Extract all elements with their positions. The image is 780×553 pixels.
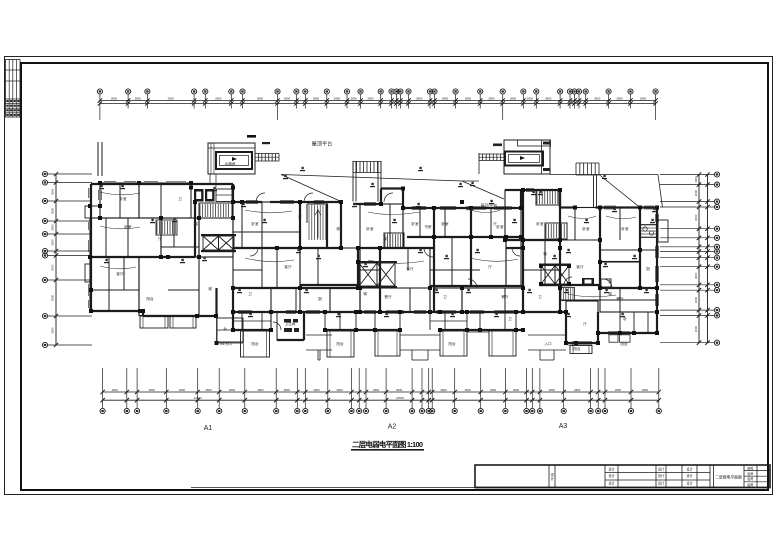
svg-text:卫: 卫 xyxy=(508,317,512,321)
svg-text:3000: 3000 xyxy=(694,190,698,197)
svg-text:2800: 2800 xyxy=(642,388,649,392)
svg-text:24500: 24500 xyxy=(396,396,404,400)
svg-text:梯: 梯 xyxy=(194,221,198,226)
svg-text:3000: 3000 xyxy=(51,294,55,301)
svg-text:厨: 厨 xyxy=(318,296,322,301)
svg-text:A2: A2 xyxy=(388,424,397,431)
svg-text:卫: 卫 xyxy=(443,295,447,299)
svg-text:2800: 2800 xyxy=(257,97,264,101)
svg-text:3000: 3000 xyxy=(694,176,698,183)
svg-text:阳台: 阳台 xyxy=(146,296,154,301)
svg-text:2800: 2800 xyxy=(594,97,601,101)
svg-text:阳台: 阳台 xyxy=(620,341,628,346)
svg-text:二层电弱电平面图 1:100: 二层电弱电平面图 1:100 xyxy=(352,440,423,449)
svg-text:阳台: 阳台 xyxy=(573,346,581,351)
svg-text:卧室: 卧室 xyxy=(582,226,590,231)
svg-text:2800: 2800 xyxy=(442,97,449,101)
svg-text:卧室: 卧室 xyxy=(441,221,449,226)
svg-text:设计: 设计 xyxy=(686,466,693,471)
svg-text:2800: 2800 xyxy=(313,97,320,101)
svg-text:2800: 2800 xyxy=(284,97,291,101)
svg-text:设计: 设计 xyxy=(686,473,693,478)
svg-text:24500: 24500 xyxy=(194,396,202,400)
svg-text:图号: 图号 xyxy=(747,476,753,481)
svg-text:2800: 2800 xyxy=(337,388,344,392)
svg-text:厅: 厅 xyxy=(493,221,497,226)
svg-text:设计: 设计 xyxy=(658,466,665,471)
svg-text:客厅: 客厅 xyxy=(284,264,292,269)
svg-text:厅: 厅 xyxy=(488,264,492,269)
svg-text:梯: 梯 xyxy=(608,291,612,296)
svg-text:A1: A1 xyxy=(204,425,213,432)
svg-text:3000: 3000 xyxy=(51,264,55,271)
svg-text:厅: 厅 xyxy=(298,214,302,219)
svg-text:A1入口: A1入口 xyxy=(220,341,232,346)
svg-text:2800: 2800 xyxy=(229,388,236,392)
svg-text:餐厅: 餐厅 xyxy=(616,296,624,301)
svg-text:3000: 3000 xyxy=(51,207,55,214)
svg-text:卫: 卫 xyxy=(178,197,182,201)
svg-text:设计: 设计 xyxy=(608,473,615,478)
svg-text:2800: 2800 xyxy=(149,388,156,392)
svg-text:2800: 2800 xyxy=(373,388,380,392)
svg-text:3000: 3000 xyxy=(51,327,55,334)
svg-text:2800: 2800 xyxy=(179,388,186,392)
svg-text:2800: 2800 xyxy=(465,97,472,101)
svg-text:3000: 3000 xyxy=(51,239,55,246)
svg-text:梯: 梯 xyxy=(363,291,367,296)
svg-text:卧室: 卧室 xyxy=(466,206,474,211)
svg-text:弱: 弱 xyxy=(608,280,612,284)
svg-text:3000: 3000 xyxy=(51,188,55,195)
svg-text:设计: 设计 xyxy=(686,480,693,485)
svg-text:阳台: 阳台 xyxy=(566,341,574,346)
svg-text:水箱间: 水箱间 xyxy=(225,161,236,166)
svg-text:台: 台 xyxy=(223,326,227,331)
svg-text:餐厅: 餐厅 xyxy=(501,294,509,299)
svg-text:A3: A3 xyxy=(559,423,568,430)
svg-text:梯: 梯 xyxy=(543,251,547,256)
svg-text:2800: 2800 xyxy=(111,97,118,101)
svg-text:3000: 3000 xyxy=(694,272,698,279)
svg-text:3000: 3000 xyxy=(51,224,55,231)
svg-text:2800: 2800 xyxy=(416,97,423,101)
svg-text:屋顶平台: 屋顶平台 xyxy=(312,140,333,148)
svg-text:2800: 2800 xyxy=(396,388,403,392)
svg-text:阳台: 阳台 xyxy=(336,341,344,346)
svg-text:二层弱电平面图: 二层弱电平面图 xyxy=(715,474,742,479)
svg-text:梯: 梯 xyxy=(208,286,212,291)
svg-text:卧室: 卧室 xyxy=(124,224,132,229)
svg-text:卧室: 卧室 xyxy=(536,221,544,226)
svg-text:餐厅: 餐厅 xyxy=(384,294,392,299)
svg-text:3000: 3000 xyxy=(694,297,698,304)
svg-text:设计: 设计 xyxy=(658,480,665,485)
svg-text:2800: 2800 xyxy=(549,388,556,392)
svg-text:卫: 卫 xyxy=(248,292,252,296)
svg-text:2800: 2800 xyxy=(205,388,212,392)
svg-text:图号: 图号 xyxy=(747,465,753,470)
svg-text:厅: 厅 xyxy=(583,321,587,326)
svg-text:图号: 图号 xyxy=(747,471,753,476)
svg-text:图号: 图号 xyxy=(747,482,753,487)
svg-text:卧室: 卧室 xyxy=(411,221,419,226)
svg-text:设计: 设计 xyxy=(608,466,615,471)
svg-text:阳台: 阳台 xyxy=(251,341,259,346)
svg-text:客厅: 客厅 xyxy=(116,271,124,276)
svg-text:入口: 入口 xyxy=(544,341,552,346)
svg-text:2800: 2800 xyxy=(168,97,175,101)
svg-text:3000: 3000 xyxy=(694,326,698,333)
svg-text:2800: 2800 xyxy=(313,388,320,392)
svg-text:2800: 2800 xyxy=(215,97,222,101)
svg-text:2800: 2800 xyxy=(490,388,497,392)
svg-text:厅: 厅 xyxy=(158,236,162,241)
svg-text:厨: 厨 xyxy=(646,266,650,271)
svg-text:卧室: 卧室 xyxy=(621,226,629,231)
svg-text:书房: 书房 xyxy=(424,224,432,229)
svg-text:2800: 2800 xyxy=(440,388,447,392)
svg-text:客厅: 客厅 xyxy=(406,266,414,271)
svg-text:2800: 2800 xyxy=(527,97,534,101)
svg-text:卫生间: 卫生间 xyxy=(285,321,296,326)
svg-text:2800: 2800 xyxy=(257,388,264,392)
svg-text:2800: 2800 xyxy=(640,97,647,101)
svg-text:3000: 3000 xyxy=(694,214,698,221)
svg-text:2800: 2800 xyxy=(545,97,552,101)
svg-text:2800: 2800 xyxy=(488,97,495,101)
svg-text:设计: 设计 xyxy=(658,473,665,478)
svg-text:2800: 2800 xyxy=(574,388,581,392)
svg-text:2800: 2800 xyxy=(284,388,291,392)
svg-text:2800: 2800 xyxy=(616,97,623,101)
svg-text:2800: 2800 xyxy=(367,97,374,101)
svg-text:2800: 2800 xyxy=(135,97,142,101)
svg-text:2800: 2800 xyxy=(510,97,517,101)
svg-text:卧室: 卧室 xyxy=(119,196,127,201)
svg-text:2800: 2800 xyxy=(465,388,472,392)
svg-text:2800: 2800 xyxy=(513,388,520,392)
svg-text:卧室: 卧室 xyxy=(251,221,259,226)
svg-text:卧室: 卧室 xyxy=(496,224,504,229)
svg-text:梯: 梯 xyxy=(336,226,340,231)
svg-text:2800: 2800 xyxy=(112,388,119,392)
svg-text:阳台: 阳台 xyxy=(448,341,456,346)
svg-text:卧室: 卧室 xyxy=(366,226,374,231)
svg-text:2800: 2800 xyxy=(351,97,358,101)
svg-text:设计: 设计 xyxy=(608,480,615,485)
svg-text:计: 计 xyxy=(551,476,555,481)
svg-text:客厅: 客厅 xyxy=(576,264,584,269)
svg-text:2800: 2800 xyxy=(334,97,341,101)
svg-text:梯: 梯 xyxy=(383,236,387,241)
svg-text:卫: 卫 xyxy=(538,295,542,299)
svg-text:2800: 2800 xyxy=(615,388,622,392)
